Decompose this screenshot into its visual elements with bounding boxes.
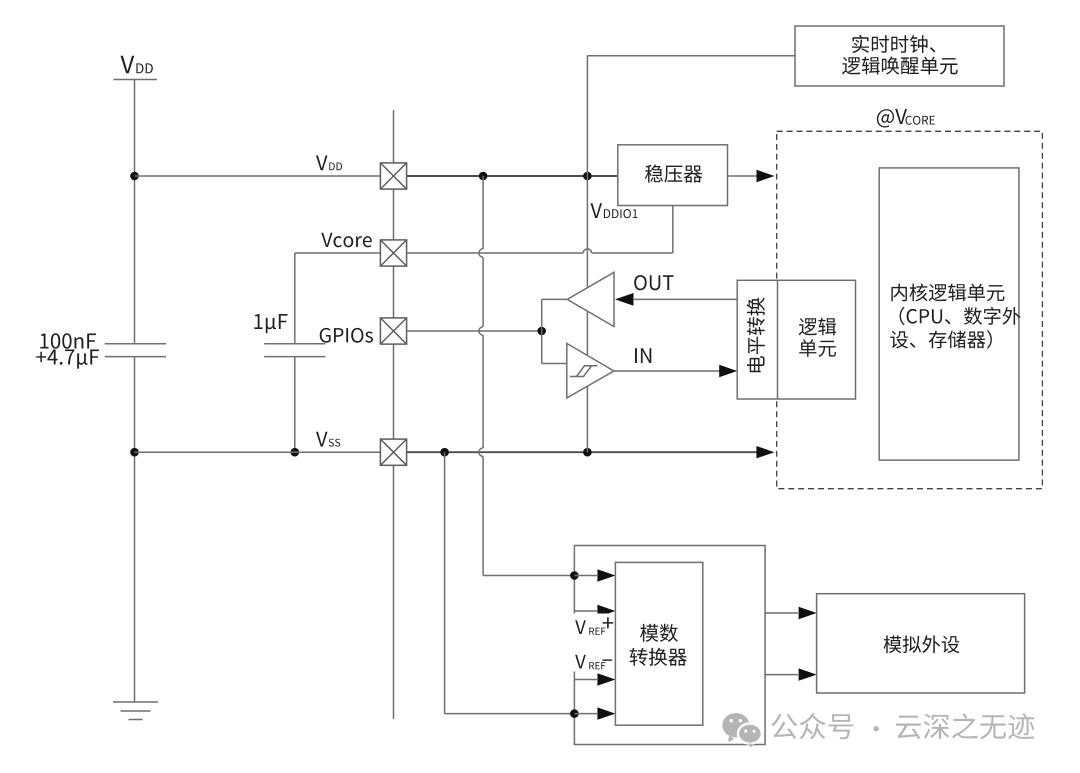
wire VDD (cap rail to pin) [135,175,381,177]
arrow ADC vss input [597,707,615,719]
core logic label line3 [890,330,992,348]
analog peripherals box [817,594,1025,693]
arrow VREF- input [597,673,615,685]
ADC label line2 [630,648,687,666]
node C2/VSS junction [291,448,300,457]
node GPIO buffer junction [537,327,546,336]
core logic label line2 [900,307,1021,325]
pin label VSS [316,432,340,447]
wire Vcore right (pin to regulator bottom) [407,206,673,254]
wire ADC analog input stub [574,575,597,577]
wire IN [614,370,720,372]
label IN [635,348,651,363]
watermark separator dot [874,726,879,731]
domain label @VCORE [877,109,935,128]
capacitor C1 plates [105,344,166,357]
analog peripherals label [884,635,960,653]
level shifter + logic unit box [737,280,855,399]
node VDD/ADC-rail junction [479,172,488,181]
core logic label line1 [891,284,1004,302]
wire VDD to ADC (VREF+ rail) [479,176,575,576]
logic unit label line1 [799,318,836,336]
wire regulator output [728,175,758,177]
wire C2 bottom to VSS [294,357,296,453]
pin VDD [380,163,406,189]
ground symbol [113,702,158,720]
net label VDD (supply) [121,56,153,74]
pin label GPIOs [320,328,373,343]
RTC label line2 [842,57,958,75]
node ADC analog-in junction [570,571,579,580]
wire RTC feed [587,56,795,176]
wire GPIOs (pin to buffer junction) [407,330,542,332]
label VREF- [575,655,612,669]
pin label Vcore [321,233,372,248]
label mask VREF [569,614,614,672]
input schmitt buffer U2 [567,343,614,398]
arrow VREF+ input [597,605,615,617]
ADC label line1 [640,624,678,642]
RTC label line1 [852,35,935,53]
ADC domain outer box [574,546,765,745]
node ADC vss-in junction [570,709,579,718]
label OUT [634,275,673,290]
wire VDDIO1 rail [586,176,588,452]
VDD supply T-bar [114,79,158,81]
RTC / wakeup unit box [795,26,1004,86]
arrow regulator output into core domain [757,170,775,182]
node VDD/VDDIO1 junction [583,172,592,181]
wire Vcore left (pin to cap) [295,253,381,344]
node VSS/VDDIO1 junction [583,448,592,457]
voltage regulator label [645,165,702,183]
wire VSS (pin to core domain) [407,451,758,453]
wire VREF+ stub [574,610,597,612]
wire OUT [633,298,737,300]
capacitor C2 value 1uF [254,314,287,333]
wire VSS to ADC (VREF- rail) [445,452,575,713]
arrow IN into level shifter [719,365,737,377]
node VSS/ADC-rail junction [440,448,449,457]
core logic box [879,168,1019,460]
wire ADC to analog periph 2 [765,674,798,676]
arrow into analog periph 2 [799,668,817,680]
node VDD rail / VDD wire junction [130,172,139,181]
node VSS wire left junction [130,448,139,457]
wire VREF- stub [574,679,597,681]
label VREF+ [575,617,613,635]
voltage regulator box [618,145,728,206]
ADC box [615,562,702,725]
wire ADC to analog periph 1 [765,612,798,614]
net label VDDIO1 [591,203,638,218]
wire VSS (cap rail to pin) [135,451,381,453]
wire ADC vss input stub [574,713,597,715]
dashed VCORE domain box [777,131,1043,488]
wire buffer column [542,299,568,363]
chip boundary line [393,110,395,719]
wire VDD rail vertical [134,80,136,344]
arrow OUT into buffer [615,293,634,306]
arrow VSS into core domain [756,446,774,458]
output buffer U1 [567,272,614,326]
pin VSS [380,439,406,465]
pin GPIOs [380,318,406,344]
level shifter divider [777,280,779,399]
watermark text part1 [771,713,853,739]
arrow ADC analog input [597,569,615,581]
capacitor C1 value 100nF [40,333,96,349]
capacitor C1 value +4.7uF [36,350,99,369]
capacitor C2 plates [264,344,325,357]
watermark wechat icon [722,713,761,748]
wire VDD (pin to regulator) [407,175,618,177]
watermark text part2 [896,713,1034,739]
logic unit label line2 [799,339,836,357]
pin Vcore [380,240,406,266]
schmitt hysteresis symbol [570,366,598,377]
arrow into analog periph 1 [799,607,817,619]
pin label VDD [316,156,342,171]
level shifter label (rotated) [747,297,765,372]
wire C1 bottom to ground [134,357,136,702]
